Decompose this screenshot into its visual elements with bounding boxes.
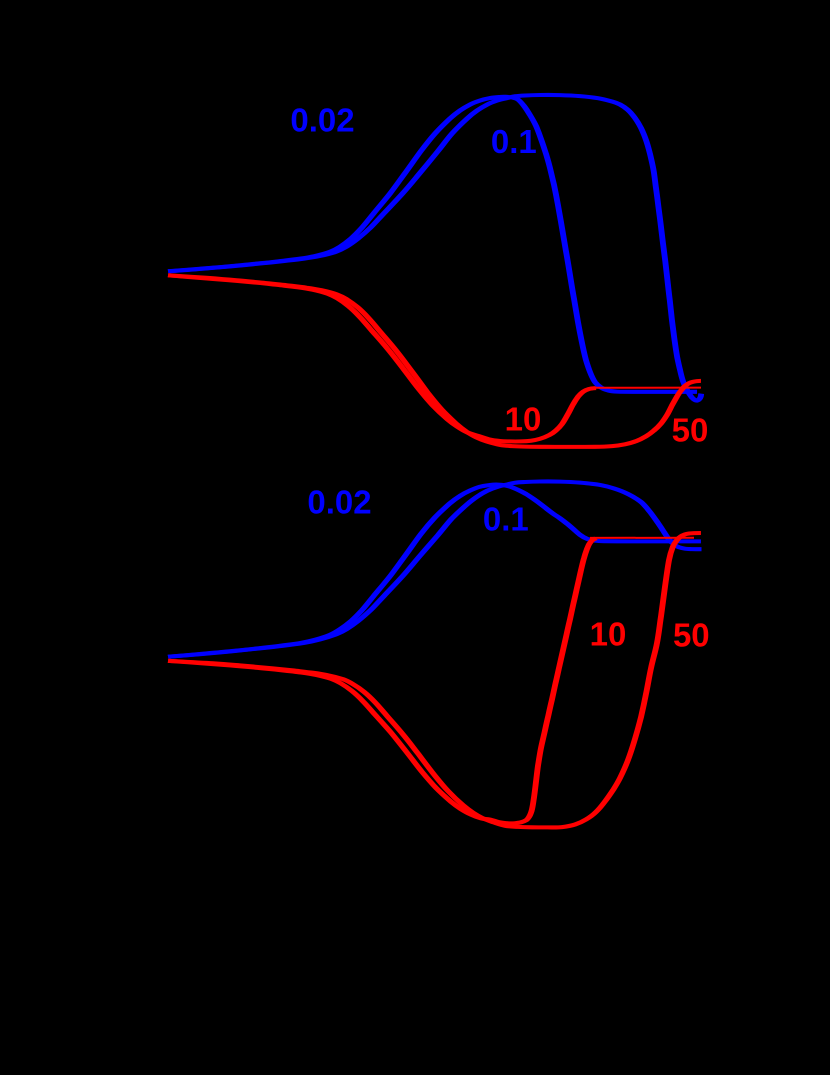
svg-text:50: 50	[672, 412, 709, 449]
svg-text:10: 10	[505, 401, 542, 438]
curve 10 (red, bottom panel)	[168, 538, 596, 823]
curve 0.1 (blue, bottom panel)	[168, 485, 701, 657]
equilibrium line of curve 10 (red, top panel)	[594, 387, 701, 389]
svg-text:0.1: 0.1	[491, 123, 537, 160]
svg-text:50: 50	[673, 617, 710, 654]
equilibrium line of curve 10 (red, bottom panel)	[590, 537, 694, 539]
svg-text:0.02: 0.02	[290, 102, 354, 139]
curve 0.02 (blue, bottom panel)	[168, 481, 701, 656]
curve 0.02 (blue, top panel)	[168, 95, 701, 401]
svg-text:10: 10	[590, 616, 627, 653]
curve 50 (red, top panel)	[168, 275, 701, 447]
curve 10 (red, top panel)	[168, 275, 596, 441]
svg-text:0.1: 0.1	[483, 501, 529, 538]
curve 50 (red, bottom panel)	[168, 533, 701, 827]
curve 0.1 (blue, top panel)	[168, 97, 697, 392]
svg-text:0.02: 0.02	[307, 484, 371, 521]
